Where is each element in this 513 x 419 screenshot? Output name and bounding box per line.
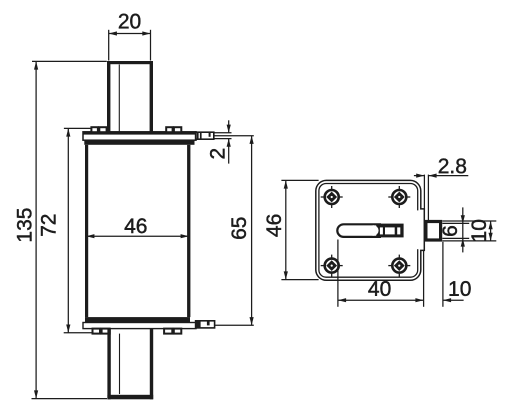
dimension line 40 xyxy=(338,299,424,301)
side view: plate group xyxy=(316,180,441,280)
top contact bump 2 xyxy=(99,127,106,132)
bottom blade right edge xyxy=(150,329,153,400)
dimension line 46 side xyxy=(285,180,287,279)
top blade left edge xyxy=(107,61,110,133)
bottom contact bump 1 xyxy=(93,329,101,334)
bottom blade left edge xyxy=(107,329,110,400)
extension line left of 2.8 xyxy=(423,175,425,210)
bottom indicator tab outline xyxy=(196,321,215,328)
extension line tab bottom outer xyxy=(442,240,496,242)
dimension 46 side xyxy=(263,180,319,279)
top cap black band xyxy=(84,140,194,145)
svg-text:46: 46 xyxy=(124,215,147,238)
svg-text:2.8: 2.8 xyxy=(438,155,467,178)
top blade inner highlight line xyxy=(118,65,120,132)
arrowhead right 20 xyxy=(142,31,150,35)
top cap flange top thick edge xyxy=(83,132,196,135)
top contact bump 3 xyxy=(166,127,172,132)
white cover at step xyxy=(417,210,424,249)
arrowhead up 10 right xyxy=(489,221,493,229)
svg-text:135: 135 xyxy=(13,208,36,243)
svg-text:65: 65 xyxy=(228,217,251,240)
dimension line 20 xyxy=(109,33,151,35)
extension line top of 2 xyxy=(214,132,232,134)
indicator black bar xyxy=(376,224,403,238)
bottom cap flange outline xyxy=(83,323,196,329)
svg-text:6: 6 xyxy=(439,225,462,237)
dimension leader 10 bottom xyxy=(443,299,464,301)
top blade top edge xyxy=(107,61,153,64)
indicator slot stadium xyxy=(337,224,381,237)
bottom contact bump 2 xyxy=(102,329,110,334)
bottom indicator tab black left part xyxy=(196,321,201,328)
bottom blade bottom edge xyxy=(107,395,153,400)
arrowhead bottom 65 xyxy=(250,317,254,325)
extension line top of 72 xyxy=(64,127,92,129)
arrowhead left 20 xyxy=(109,31,117,35)
svg-text:40: 40 xyxy=(368,278,391,301)
svg-text:10: 10 xyxy=(468,219,491,242)
svg-text:2: 2 xyxy=(206,148,229,160)
extension line bottom of 2 xyxy=(214,138,232,140)
dimension leader below 2 xyxy=(228,139,230,164)
top indicator tab outline xyxy=(196,132,214,139)
dimension 2.8 xyxy=(414,155,468,221)
dimension 72 xyxy=(38,128,93,332)
svg-text:10: 10 xyxy=(448,278,471,301)
svg-text:72: 72 xyxy=(38,214,61,237)
bottom indicator tab bar xyxy=(207,321,210,325)
top contact bump 4 xyxy=(174,127,181,132)
indicator bar white cutout 3 xyxy=(397,227,400,234)
top indicator tab bar 1 xyxy=(197,132,199,139)
svg-text:20: 20 xyxy=(118,10,141,33)
dimension 10 bottom xyxy=(443,242,471,307)
side tab xyxy=(426,222,441,241)
extension line tab top outer xyxy=(442,220,496,222)
dimension 2 xyxy=(206,120,231,163)
arrowhead left-pointing 10 bottom xyxy=(443,298,451,302)
dimension 46 front xyxy=(86,215,189,238)
dimension line 72 xyxy=(67,128,69,332)
top blade right edge xyxy=(150,61,153,133)
top contact bump 1 xyxy=(91,127,98,132)
body left wall xyxy=(85,145,88,317)
extension line tab top inner xyxy=(442,222,469,224)
arrowhead down 6 xyxy=(461,215,465,223)
arrowhead left-pointing 2.8 xyxy=(428,174,436,178)
extension line top of 65 xyxy=(214,135,254,137)
arrowhead top 65 xyxy=(250,136,254,144)
plate outer outline with step xyxy=(316,180,425,280)
top cap flange outline xyxy=(83,132,196,140)
arrowhead bottom 135 xyxy=(34,390,38,398)
dimension leader above 2 xyxy=(228,120,230,133)
extension line right of 20 xyxy=(150,30,152,61)
dimension 65 xyxy=(214,136,254,326)
arrowhead left 40 xyxy=(338,298,346,302)
extension line top of 135 xyxy=(32,60,107,62)
top indicator tab bar 2 xyxy=(200,132,202,139)
dimension 6 and 10 right xyxy=(439,207,496,252)
arrowhead top 72 xyxy=(66,128,70,136)
extension line bottom of 135 xyxy=(32,398,108,400)
front view: fuse body group xyxy=(83,61,215,399)
dimension line 65 xyxy=(251,136,253,326)
top indicator tab bar 3 xyxy=(209,132,211,137)
extension line right of 2.8 xyxy=(427,175,429,221)
dimension line 6 xyxy=(462,207,464,252)
dimension line 135 xyxy=(35,61,37,398)
screw top-left xyxy=(321,186,343,208)
dimension 40 xyxy=(338,240,424,307)
bottom contact bump 4 xyxy=(174,329,182,334)
arrowhead down 10 right xyxy=(489,233,493,241)
arrowhead up 2 xyxy=(227,139,231,147)
arrowhead down 2 xyxy=(227,125,231,133)
indicator bar white cutout 2 xyxy=(385,227,395,234)
extension line for 10 bottom xyxy=(442,242,444,307)
svg-text:46: 46 xyxy=(263,214,286,237)
dimension 135 xyxy=(13,61,107,398)
arrowhead bottom 72 xyxy=(66,325,70,333)
arrowhead top 135 xyxy=(34,61,38,69)
dimension 20 xyxy=(109,10,151,60)
arrowhead right-pointing 2.8 xyxy=(416,174,424,178)
extension line tab bottom inner xyxy=(442,237,469,239)
extension line bottom of 72 xyxy=(64,332,93,334)
bottom contact bump 3 xyxy=(164,329,172,334)
dimension line 46 front xyxy=(86,235,189,237)
extension line bottom of 46 side xyxy=(281,279,318,281)
arrowhead top 46 side xyxy=(284,180,288,188)
screw top-right xyxy=(388,186,410,208)
dimension line 10 right xyxy=(490,221,492,241)
dimension leader left 2.8 xyxy=(414,175,425,177)
screw bottom-right xyxy=(388,255,410,277)
extension line left of 20 xyxy=(108,30,110,61)
dimension leader right 2.8 xyxy=(428,175,468,177)
screw bottom-left xyxy=(321,255,343,277)
indicator white cap carve xyxy=(368,225,378,235)
arrowhead up 6 xyxy=(461,238,465,246)
plate inner outline xyxy=(319,184,418,278)
extension line right of 40 xyxy=(423,251,425,307)
extension line top of 46 side xyxy=(281,179,318,181)
body right wall xyxy=(187,145,190,317)
body bottom black band xyxy=(85,317,190,322)
extension line left of 40 xyxy=(337,240,339,307)
arrowhead right 40 xyxy=(415,298,423,302)
extension line bottom of 65 xyxy=(215,324,254,326)
arrowhead bottom 46 side xyxy=(284,271,288,279)
indicator bar white cutout 1 xyxy=(380,227,383,234)
arrowhead left 46 front xyxy=(86,234,94,238)
arrowhead right 46 front xyxy=(181,234,189,238)
bottom blade inner highlight line xyxy=(119,334,121,394)
